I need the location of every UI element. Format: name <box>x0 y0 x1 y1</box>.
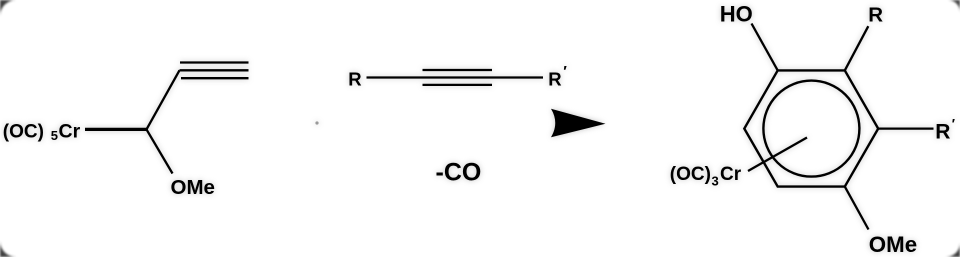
svg-text:R: R <box>935 120 950 143</box>
svg-text:(OC): (OC) <box>670 164 711 185</box>
wire alkyne center line mid <box>367 76 544 78</box>
benzene aromatic circle <box>763 81 859 177</box>
svg-text:(OC): (OC) <box>3 121 44 142</box>
svg-text:R: R <box>348 68 361 89</box>
svg-text:HO: HO <box>720 1 753 26</box>
svg-text:5: 5 <box>51 128 58 143</box>
wire C-OMe bond down <box>147 129 173 173</box>
svg-text:′: ′ <box>952 117 955 132</box>
wire R'-ring bond <box>878 127 933 129</box>
wire R-ring bond <box>845 26 869 70</box>
svg-text:-CO: -CO <box>436 159 482 187</box>
svg-text:3: 3 <box>712 174 719 189</box>
corner top-left <box>0 0 16 16</box>
wire alkyne top line left <box>180 61 249 63</box>
svg-text:OMe: OMe <box>869 232 917 257</box>
wire alkyne upper line mid <box>423 69 493 71</box>
corner top-right <box>948 0 960 12</box>
arrow reaction arrowhead <box>551 109 606 137</box>
wire alkyne middle line left <box>180 69 249 71</box>
wire Cr=C carbene bond <box>85 128 147 131</box>
node faint dot <box>315 121 318 124</box>
corner bottom-right <box>946 243 960 257</box>
svg-text:Cr: Cr <box>720 164 742 185</box>
wire alkyne bottom line left <box>181 77 249 79</box>
wire HO-ring bond <box>752 24 778 71</box>
svg-text:R: R <box>548 68 561 89</box>
svg-text:′: ′ <box>563 63 567 80</box>
wire Cr-arene bond <box>748 138 807 172</box>
wire OMe-ring bond <box>845 187 869 230</box>
svg-text:OMe: OMe <box>171 176 215 199</box>
benzene ring hexagon <box>744 70 878 186</box>
wire alkyne lower line mid <box>423 84 493 86</box>
svg-text:R: R <box>868 4 883 27</box>
svg-text:Cr: Cr <box>59 120 81 142</box>
corner bottom-left <box>0 241 16 257</box>
wire chain bond up <box>147 70 180 129</box>
